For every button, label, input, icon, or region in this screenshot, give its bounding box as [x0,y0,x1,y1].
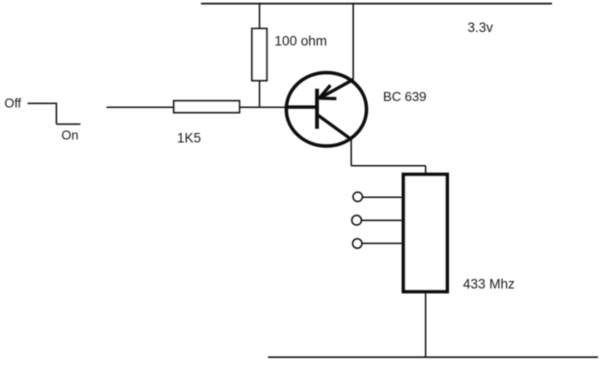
svg-text:1K5: 1K5 [177,131,201,146]
wire input left [107,106,174,108]
svg-text:3.3v: 3.3v [468,20,494,35]
wire collector down [350,139,352,166]
wire stub into module [425,166,427,173]
power rail 3.3v [201,3,552,5]
module U1 433 Mhz [403,174,447,291]
pin 3 [353,239,402,248]
ground rail [268,356,598,358]
wire R1 to base node [259,81,261,108]
transistor Q1 BC 639 [286,73,367,146]
wire step high [28,102,57,104]
svg-text:100 ohm: 100 ohm [275,34,328,49]
svg-text:433 Mhz: 433 Mhz [463,276,515,291]
wire collector to module [351,165,425,167]
wire step edge [55,103,57,124]
svg-text:BC 639: BC 639 [383,89,426,104]
svg-text:Off: Off [4,95,21,110]
wire base node [240,106,287,108]
wire step low [56,123,80,125]
wire emitter to rail [352,4,354,79]
wire module to ground rail [425,293,427,357]
wire rail to R1 [259,4,261,29]
resistor R2 1K5 [174,101,240,113]
svg-text:On: On [61,127,78,142]
resistor R1 100 ohm [252,29,267,81]
pin 1 [353,192,402,201]
pin 2 [352,215,402,225]
